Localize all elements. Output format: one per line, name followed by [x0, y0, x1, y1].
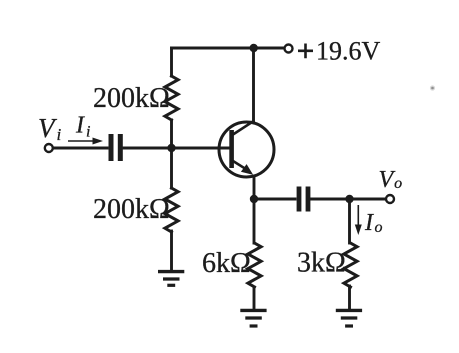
wire R2 to ground	[170, 231, 173, 271]
ground (3k)	[336, 310, 362, 326]
resistor R2 200k zigzag	[165, 188, 178, 232]
wire output node down to R4	[348, 199, 351, 243]
resistor R4 3k zigzag	[344, 243, 357, 287]
wire C2 to output terminal	[312, 198, 386, 201]
ground (bias branch)	[158, 272, 184, 286]
svg-text:6kΩ: 6kΩ	[202, 248, 251, 279]
node bias junction	[167, 144, 175, 152]
transistor Q1 emitter stroke with arrow	[233, 161, 246, 169]
wire input terminal to capacitor C1	[54, 147, 108, 150]
wire R4 to ground	[348, 286, 351, 308]
node output junction	[345, 195, 353, 203]
svg-text:200kΩ: 200kΩ	[93, 194, 170, 225]
svg-text:19.6V: 19.6V	[316, 37, 381, 66]
transistor Q1 collector stroke	[233, 121, 255, 135]
capacitor C1	[109, 134, 123, 161]
ground (6k)	[240, 310, 266, 326]
transistor Q1 base bar	[229, 130, 234, 168]
svg-text:Ii: Ii	[75, 113, 90, 141]
wire top rail	[172, 47, 284, 50]
node collector rail junction	[250, 44, 258, 52]
wire C1 to base	[124, 147, 229, 150]
svg-text:Vo: Vo	[379, 167, 403, 193]
capacitor C2	[297, 187, 311, 212]
terminal +19.6V	[285, 45, 293, 53]
speck artifact	[430, 85, 435, 90]
node emitter junction	[250, 195, 258, 203]
arrow Io	[355, 205, 362, 235]
resistor R3 6k zigzag	[248, 243, 261, 287]
wire emitter node to capacitor C2	[254, 198, 295, 201]
wire R3 to ground	[253, 287, 256, 310]
svg-text:Vi: Vi	[38, 113, 62, 144]
svg-text:200kΩ: 200kΩ	[93, 83, 170, 114]
transistor Q1 circle	[219, 122, 274, 177]
wire collector to top rail	[252, 48, 255, 122]
terminal Vo	[386, 195, 394, 203]
arrow Ii	[68, 138, 103, 145]
wire bias branch vertical top	[170, 48, 173, 76]
svg-text:3kΩ: 3kΩ	[297, 248, 346, 279]
wire between R1 and bias node	[170, 120, 173, 188]
terminal Vi	[45, 144, 53, 152]
wire emitter down	[253, 177, 256, 243]
label +19.6V	[298, 44, 313, 59]
svg-text:Io: Io	[364, 210, 383, 236]
resistor R1 200k zigzag	[165, 76, 178, 120]
